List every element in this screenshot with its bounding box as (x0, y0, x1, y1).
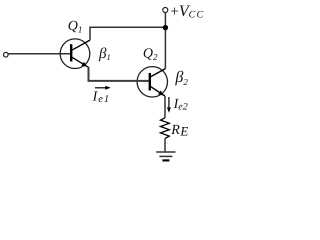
svg-text:+VCC: +VCC (170, 3, 204, 20)
transistor Q2 (137, 67, 167, 97)
svg-text:Q2: Q2 (143, 47, 158, 62)
svg-text:β1: β1 (98, 46, 111, 62)
ground (156, 152, 175, 160)
svg-text:Ie2: Ie2 (173, 97, 188, 112)
input terminal (4, 52, 9, 57)
transistor Q1 (60, 39, 90, 69)
svg-text:RE: RE (170, 123, 188, 139)
svg-text:Ie1: Ie1 (92, 90, 111, 105)
wire: resistor to ground (164, 139, 166, 152)
arrow Ie2 (168, 97, 170, 110)
wire: Q1 collector lead up and right (90, 27, 165, 40)
svg-text:β2: β2 (174, 69, 188, 87)
junction dot (163, 25, 168, 30)
VCC terminal (163, 8, 168, 13)
wire: VCC rail vertical (164, 13, 166, 69)
svg-text:Q1: Q1 (68, 19, 83, 34)
wire: Q2 emitter down to resistor (164, 96, 166, 118)
resistor RE (161, 118, 170, 139)
wire: Q1 emitter to Q2 base (89, 67, 149, 81)
arrow Ie1 (95, 87, 108, 89)
wire: input to Q1 base (8, 53, 70, 55)
